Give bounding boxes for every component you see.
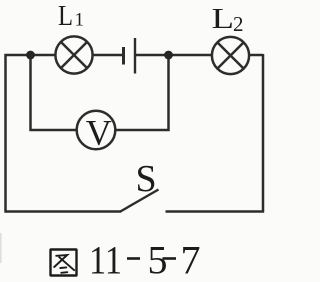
wire: right branch vertical from junction down to voltmeter row [167,55,170,131]
wire: left outer vertical rail [4,54,7,213]
wire: lamp L1 right to battery negative plate [93,54,124,57]
node: junction dot left (top rail, x=30) [26,51,35,60]
lamp L2 [212,37,249,74]
wire: top-left horizontal from left rail to lamp L1 [5,54,56,57]
svg-text:S: S [136,158,157,200]
node: junction dot right (top rail, x=168) [164,51,173,60]
wire: voltmeter left horizontal [30,129,77,132]
svg-text:V: V [86,113,112,153]
voltmeter V1 [77,111,116,153]
lamp L1 [55,36,92,73]
battery B1: long (positive) plate [134,38,136,74]
scan artifact: faint left-edge smudge [0,233,2,263]
wire: bottom horizontal to switch pivot [5,210,121,213]
wire: voltmeter right horizontal [116,129,170,132]
wire: right outer vertical rail [262,54,265,213]
caption dash 1 [127,257,140,260]
wire: left branch vertical down to voltmeter row [29,55,32,131]
wire: battery positive plate to lamp L2 left [135,54,212,57]
caption glyph: 图 (drawn) [51,250,77,276]
battery B1: short (negative) plate [122,47,125,65]
caption dash 2 [163,257,177,260]
switch S: blade [120,190,159,213]
wire: switch right terminal to bottom-right corner [166,210,265,213]
wire: lamp L2 right to top-right corner [249,54,263,57]
